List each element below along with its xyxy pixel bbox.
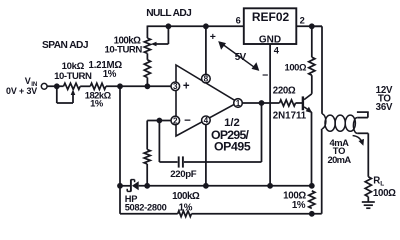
svg-text:5082-2800: 5082-2800 [125, 203, 167, 213]
wire pin4 to row [205, 125, 207, 186]
node null wiper junction [166, 23, 172, 29]
wire supply drop [312, 26, 322, 114]
svg-text:−: − [262, 70, 268, 82]
label 220 [273, 86, 296, 97]
node A feedback tap [117, 83, 123, 89]
arrow loop current [353, 136, 364, 146]
svg-text:1%: 1% [90, 98, 104, 109]
node pin8 rail junction [203, 23, 209, 29]
label 100k bottom [172, 191, 200, 202]
wire pin2 input [147, 121, 171, 150]
inductor loop line [322, 114, 357, 134]
label 4mA [329, 137, 349, 148]
svg-text:2: 2 [173, 116, 178, 125]
wire input to span pot [47, 85, 63, 87]
label 1.21M tol [103, 69, 117, 80]
pin label 4 ref [274, 46, 280, 56]
wire 182k to pin3 [106, 85, 171, 87]
wire base [296, 102, 303, 104]
resistor 1.21M [144, 60, 150, 78]
wire coil left to rail [321, 129, 323, 214]
span pot wiper [57, 86, 76, 103]
resistor 100 sense [309, 191, 315, 209]
label 36V [376, 102, 393, 113]
svg-text:100kΩ: 100kΩ [172, 191, 200, 202]
svg-text:V: V [25, 76, 31, 86]
wire collector [311, 75, 313, 94]
label OP495 [214, 139, 251, 153]
resistor 220 [280, 100, 296, 106]
pin 4 vminus [202, 116, 211, 125]
svg-text:1%: 1% [179, 202, 193, 213]
ground [362, 197, 375, 209]
op-amp plus sign [183, 80, 190, 92]
label 0V +3V [6, 86, 37, 96]
pin 3 noninverting [171, 82, 180, 91]
label SPAN ADJ [42, 40, 88, 51]
pin 8 vplus [202, 74, 211, 83]
terminal 12V-36V bar [357, 111, 369, 113]
svg-text:100Ω: 100Ω [285, 62, 307, 73]
label 20mA [328, 154, 352, 165]
wire pot to 182k [80, 85, 90, 87]
wire collector R to rail [311, 26, 313, 57]
label NULL ADJ [146, 8, 191, 19]
svg-text:10-TURN: 10-TURN [54, 71, 92, 82]
label 10-TURN span [54, 71, 92, 82]
svg-text:2: 2 [300, 16, 305, 26]
svg-text:OP495: OP495 [214, 139, 251, 153]
label OP295 [211, 128, 250, 142]
null pot wiper [151, 26, 169, 46]
svg-text:20mA: 20mA [328, 154, 352, 165]
wire 5V rail [147, 26, 243, 39]
op-amp minus sign [184, 115, 191, 127]
wire ref output [296, 25, 322, 27]
label 220pF [170, 169, 196, 180]
node row diode [117, 183, 123, 189]
svg-text:−: − [184, 115, 191, 127]
svg-text:10-TURN: 10-TURN [105, 45, 143, 56]
label 10-TURN null [105, 45, 143, 56]
resistor RL load [365, 177, 371, 197]
label 100 sense [283, 190, 306, 201]
label RL value [373, 188, 396, 199]
svg-text:NULL ADJ: NULL ADJ [146, 8, 191, 19]
svg-text:36V: 36V [376, 102, 393, 113]
svg-text:3: 3 [173, 82, 178, 91]
svg-text:4: 4 [274, 46, 280, 56]
svg-text:0V + 3V: 0V + 3V [6, 86, 37, 96]
label TO current [333, 145, 345, 156]
resistor 100k bottom [178, 211, 192, 217]
label 5082-2800 [125, 203, 167, 213]
svg-text:1%: 1% [103, 69, 117, 80]
wire output feedback drop [261, 103, 263, 162]
potentiometer span 10k [64, 83, 81, 89]
node B offset tap [145, 83, 151, 89]
svg-text:L: L [380, 181, 384, 188]
node row refgnd [267, 183, 273, 189]
svg-text:REF02: REF02 [252, 10, 290, 24]
node row feedback [144, 183, 150, 189]
label TO supply [378, 94, 392, 105]
annotation 5V arrow [210, 31, 269, 82]
wire node A drop [119, 86, 121, 214]
svg-text:100Ω: 100Ω [373, 188, 396, 199]
wire ref gnd [269, 44, 271, 186]
wire coil to load [357, 133, 368, 177]
label 100 sense tol [292, 200, 306, 211]
svg-text:1: 1 [236, 99, 241, 108]
label 100k bottom tol [179, 202, 193, 213]
resistor 182k [90, 83, 106, 89]
label VIN [25, 76, 38, 88]
svg-text:1%: 1% [292, 200, 306, 211]
resistor 100k feedback [144, 150, 150, 165]
svg-text:R: R [373, 176, 380, 187]
label 10k [62, 61, 85, 72]
node row pin4 [203, 183, 209, 189]
wire 1.21M to node B [146, 78, 148, 87]
svg-text:5V: 5V [235, 52, 247, 63]
node ref out junction [309, 23, 315, 29]
wire bottom rail left [120, 213, 178, 215]
svg-text:+: + [183, 80, 190, 92]
node rail sense [309, 211, 315, 217]
node pin2 cap tap [157, 118, 163, 124]
wire bottom rail right [191, 213, 321, 215]
label 182k tol [90, 98, 104, 109]
label RL [373, 176, 384, 188]
diode D1 HP5082-2800 [127, 179, 139, 191]
wire pot to 1.21M [146, 53, 148, 59]
wire emitter [311, 112, 313, 186]
svg-text:2N1711: 2N1711 [273, 111, 307, 122]
op-amp U1 1/2 OP295 [176, 65, 238, 136]
node input junction [54, 83, 60, 89]
capacitor 220pF [159, 121, 261, 168]
svg-text:8: 8 [204, 75, 209, 84]
svg-text:SPAN ADJ: SPAN ADJ [42, 40, 88, 51]
resistor 100 collector [309, 57, 315, 75]
wire pin8 supply [205, 26, 207, 74]
svg-text:220pF: 220pF [170, 169, 196, 180]
pin label 6 [236, 16, 241, 26]
label 2N1711 [273, 111, 307, 122]
wire coil to supply terminal [357, 112, 368, 118]
svg-text:220Ω: 220Ω [273, 86, 296, 97]
label 100k null [114, 36, 142, 47]
input terminal VIN [41, 83, 47, 89]
label 1/2 [224, 117, 240, 129]
wire output [242, 102, 279, 104]
pin 2 inverting [171, 116, 180, 125]
pin label 2 ref [300, 16, 305, 26]
wire common row [139, 185, 312, 187]
svg-text:4: 4 [204, 116, 209, 125]
svg-text:GND: GND [259, 34, 281, 45]
label 12V [376, 85, 393, 96]
label 182k [85, 90, 112, 101]
potentiometer null 100k [144, 38, 150, 53]
svg-text:+: + [210, 31, 216, 43]
node row sense [309, 183, 315, 189]
transistor Q1 2N1711 [302, 94, 313, 113]
svg-text:6: 6 [236, 16, 241, 26]
pin 1 output [234, 99, 243, 108]
label 100 collector [285, 62, 307, 73]
label HP [125, 194, 138, 204]
voltage reference U2 REF02 [244, 8, 296, 45]
wire feedback R to row [146, 164, 148, 186]
node output junction [259, 100, 265, 106]
wire row left [120, 185, 130, 187]
label 1.21M [89, 60, 123, 71]
